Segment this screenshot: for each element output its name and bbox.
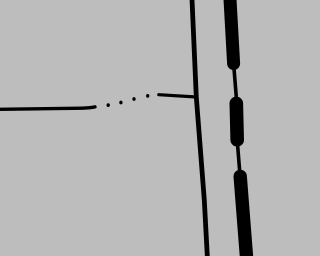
wire: north-south road — [192, 0, 208, 256]
map background — [0, 0, 256, 256]
wire: thick route capsule B — [230, 103, 244, 139]
wire: thin link A-B — [234, 64, 237, 98]
node: dot 3 of dotted road — [132, 97, 135, 101]
node: dot 4 of dotted road — [146, 94, 149, 98]
wire: thick route capsule C — [240, 176, 247, 256]
node: dot 2 of dotted road — [119, 101, 122, 105]
wire: thin link B-C — [237, 140, 240, 174]
wire: thick route capsule A — [230, 0, 234, 64]
node: dot 1 of dotted road — [107, 103, 110, 107]
wire: long west road — [0, 107, 95, 110]
wire: short connector road — [159, 95, 197, 97]
